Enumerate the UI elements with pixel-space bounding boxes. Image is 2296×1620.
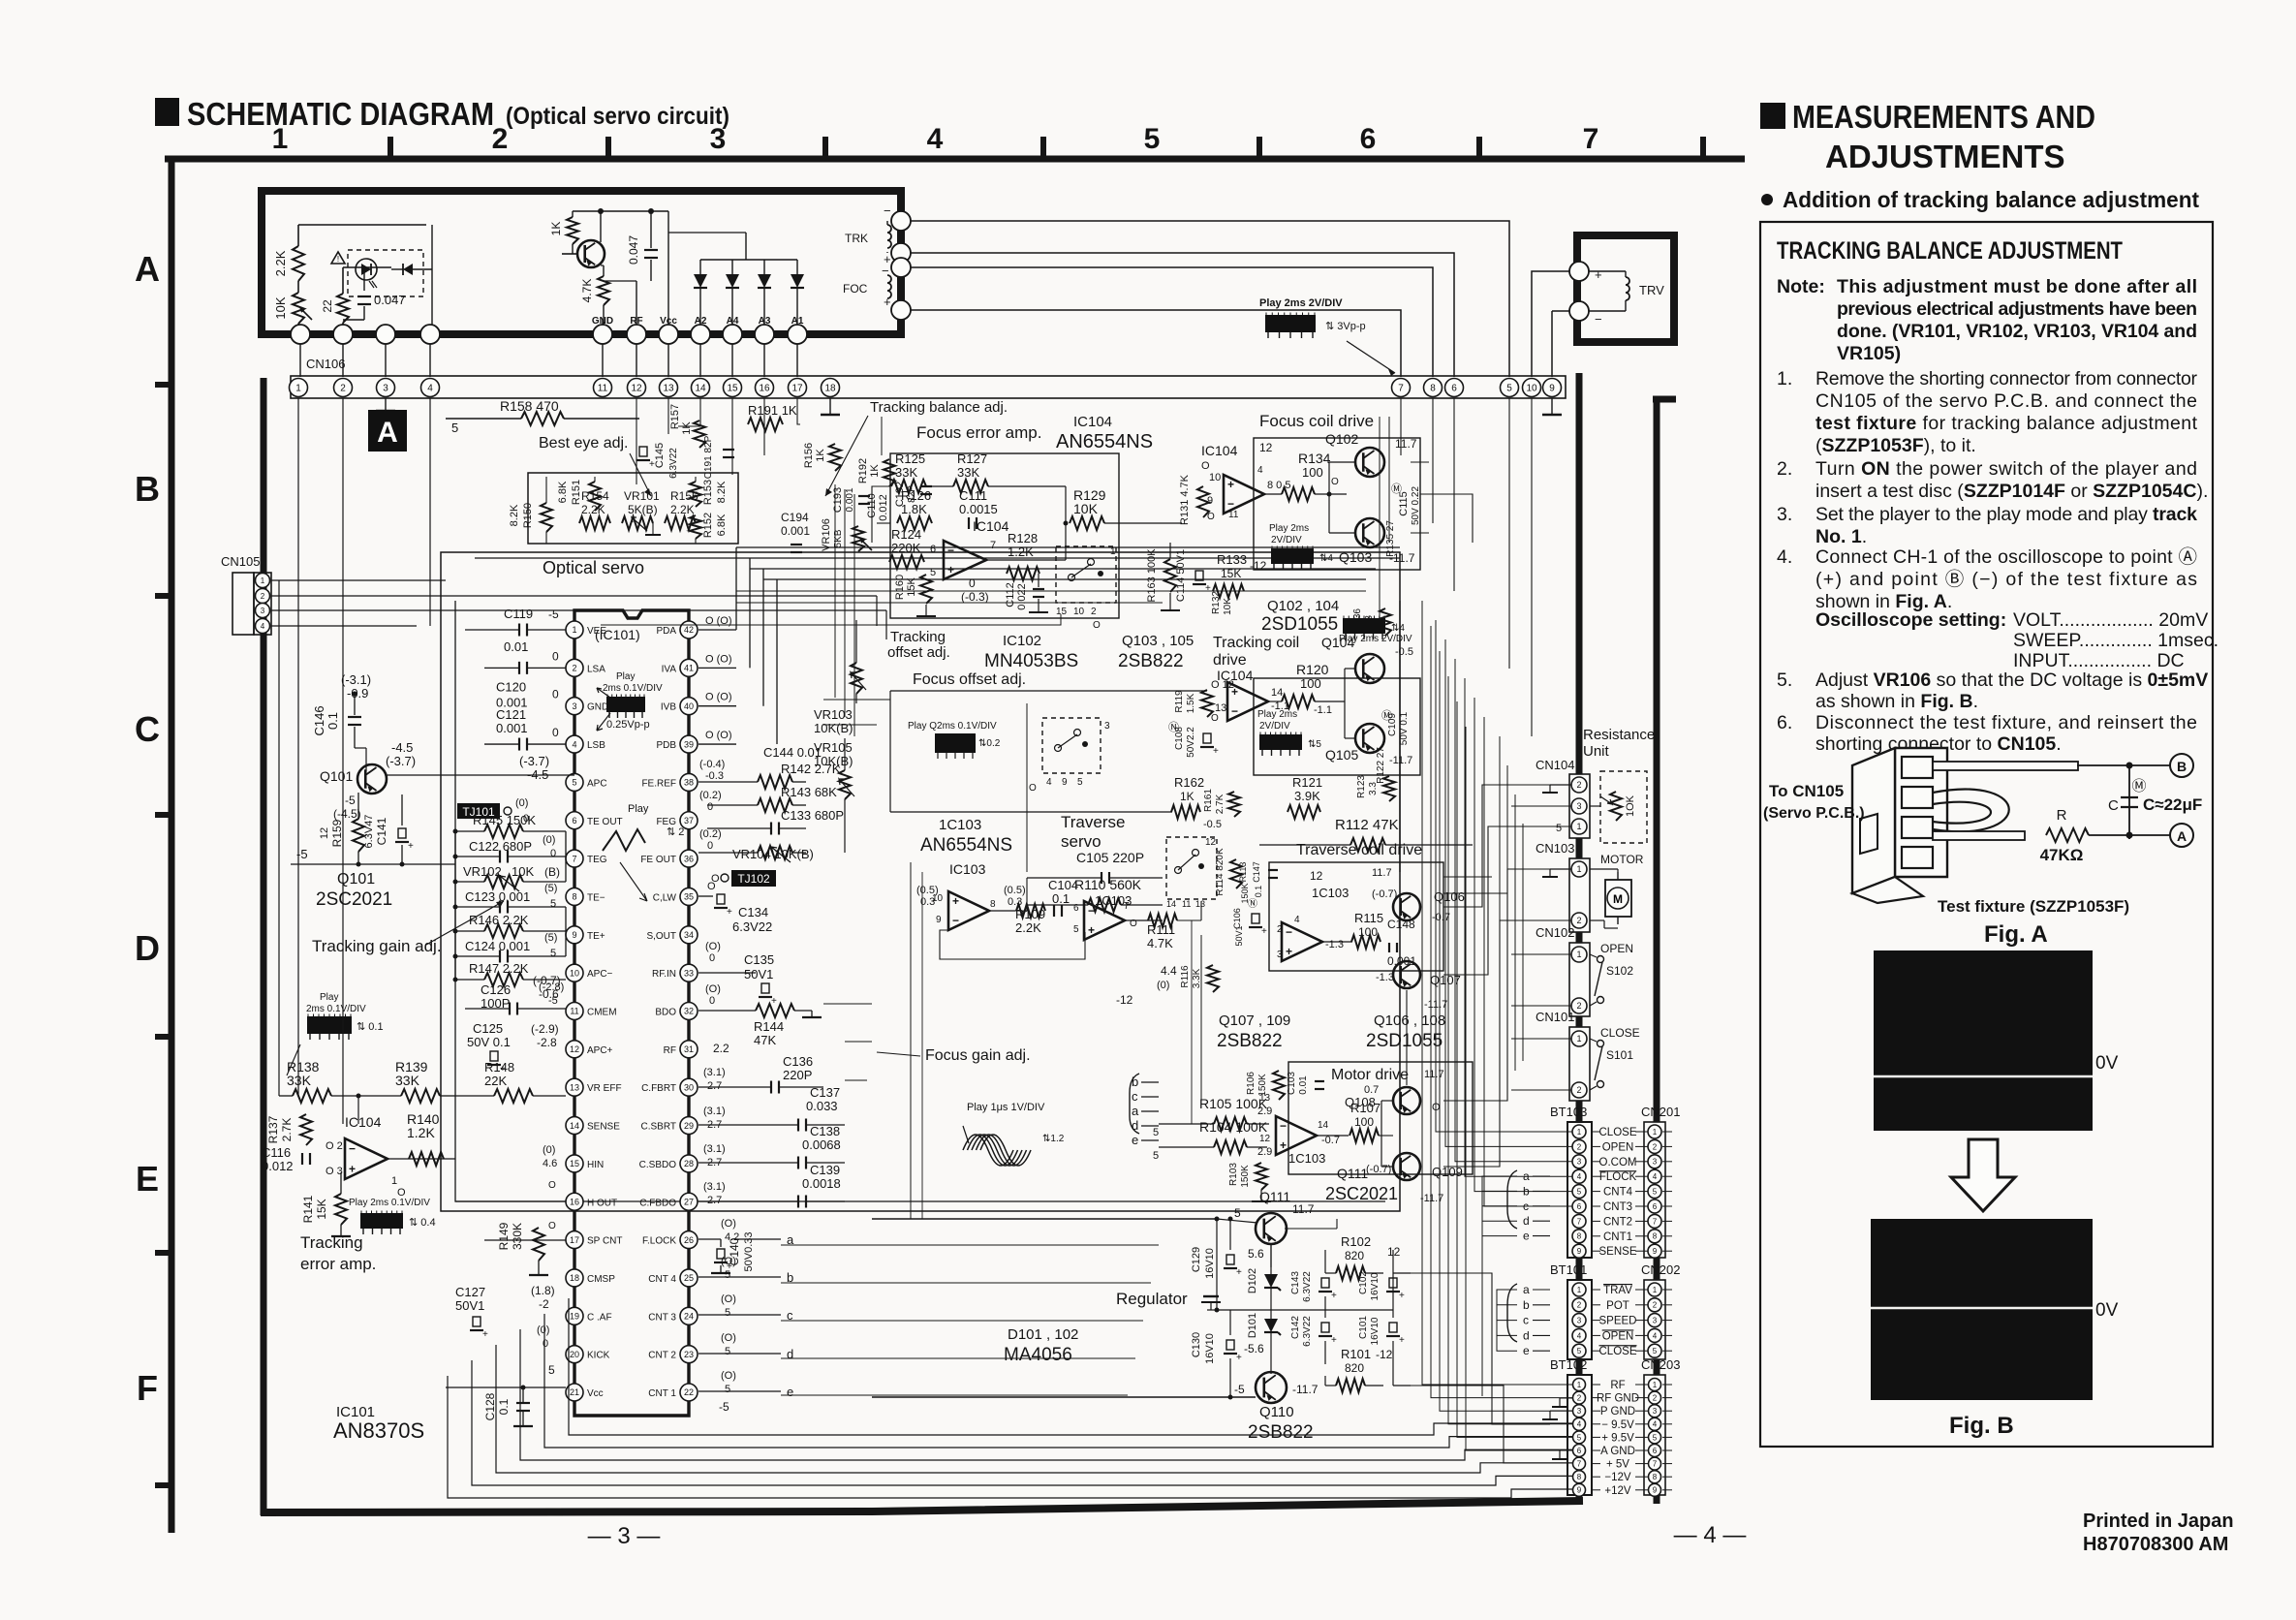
fig A oscillogram photo: [1874, 950, 2093, 1131]
svg-text:13: 13: [1259, 1093, 1271, 1104]
svg-text:R128: R128: [1008, 531, 1038, 545]
svg-text:11: 11: [1228, 510, 1239, 520]
svg-text:R103: R103: [1228, 1163, 1239, 1186]
svg-text:R120: R120: [1296, 662, 1329, 677]
svg-text:4: 4: [1257, 465, 1263, 476]
svg-text:R106: R106: [1246, 1072, 1257, 1095]
svg-text:22: 22: [684, 1387, 694, 1397]
svg-text:1: 1: [1576, 864, 1581, 874]
svg-text:CNT 3: CNT 3: [648, 1312, 676, 1323]
svg-text:(0.2): (0.2): [699, 828, 722, 840]
svg-text:CNT 2: CNT 2: [648, 1351, 676, 1361]
CN106 pin 1: [290, 379, 308, 397]
svg-text:0.047: 0.047: [374, 293, 406, 307]
svg-text:1OK: 1OK: [1625, 794, 1636, 817]
svg-text:R154: R154: [581, 489, 609, 503]
svg-text:C120: C120: [496, 679, 526, 694]
svg-text:10K: 10K: [1223, 598, 1233, 615]
focus error amp box: [890, 453, 1119, 618]
svg-text:⇅ 0.4: ⇅ 0.4: [409, 1217, 436, 1229]
CN106 pin3 ground: [385, 398, 387, 411]
wire extra verticals left mid: [834, 484, 836, 698]
CN105 pin 1: [256, 574, 270, 588]
svg-text:5.6: 5.6: [1248, 1247, 1264, 1261]
svg-text:29: 29: [684, 1121, 694, 1131]
svg-text:C144 0.01: C144 0.01: [763, 745, 822, 760]
svg-text:R146 2.2K: R146 2.2K: [469, 913, 529, 927]
svg-text:Traverse coil drive: Traverse coil drive: [1296, 842, 1422, 858]
IC101 pin 16: [566, 1193, 583, 1210]
svg-text:1K: 1K: [1180, 790, 1195, 803]
IC101 pin 41: [680, 659, 698, 676]
test fixture lead B: [1933, 762, 2078, 770]
svg-text:O: O: [1331, 477, 1339, 487]
svg-text:C116: C116: [262, 1145, 291, 1160]
svg-text:28: 28: [684, 1159, 694, 1168]
svg-text:Test fixture (SZZP1053F): Test fixture (SZZP1053F): [1938, 897, 2129, 916]
CN106 pin 9: [1543, 379, 1562, 397]
svg-text:R: R: [2057, 807, 2067, 824]
svg-text:C135: C135: [744, 952, 774, 967]
svg-text:36: 36: [684, 854, 694, 863]
svg-text:6.3V47: 6.3V47: [363, 815, 375, 849]
svg-text:-0.3: -0.3: [705, 770, 724, 782]
resistor R191 1K: [748, 418, 783, 431]
svg-text:SP CNT: SP CNT: [587, 1236, 623, 1247]
svg-text:50V 0.1: 50V 0.1: [467, 1035, 511, 1049]
svg-text:-12: -12: [1116, 993, 1133, 1007]
svg-text:R192: R192: [857, 458, 869, 483]
svg-text:GND: GND: [587, 702, 608, 713]
IC101 pin 11: [566, 1003, 583, 1020]
svg-text:(Servo P.C.B.): (Servo P.C.B.): [1763, 805, 1865, 822]
svg-text:R121: R121: [1292, 775, 1322, 790]
svg-text:F: F: [137, 1368, 158, 1408]
svg-text:3.: 3.: [1777, 504, 1792, 525]
svg-text:Play 2ms 2V/DIV: Play 2ms 2V/DIV: [1339, 634, 1412, 644]
svg-text:10: 10: [1209, 472, 1221, 483]
svg-text:8.2K: 8.2K: [716, 481, 728, 503]
IC101 pin 36: [680, 850, 698, 867]
wire eye line: [823, 1003, 872, 1005]
svg-text:C111: C111: [959, 488, 987, 503]
svg-text:AN8370S: AN8370S: [333, 1418, 424, 1443]
wire mid horizontal A: [823, 699, 890, 701]
CN106 pin 5: [1501, 379, 1519, 397]
svg-text:4.7K: 4.7K: [1147, 936, 1173, 950]
svg-text:Focus gain adj.: Focus gain adj.: [925, 1047, 1031, 1064]
svg-text:Q106 , 108: Q106 , 108: [1374, 1012, 1445, 1029]
svg-text:7: 7: [1124, 901, 1130, 912]
svg-text:done. (VR101, VR102, VR103, VR: done. (VR101, VR102, VR103, VR104 and: [1837, 321, 2197, 342]
svg-text:C119: C119: [504, 607, 533, 621]
svg-text:5: 5: [1506, 384, 1512, 394]
svg-text:Q101: Q101: [320, 768, 353, 784]
wire mid verticals lower: [1200, 935, 1202, 1105]
svg-text:15K: 15K: [1221, 567, 1241, 580]
svg-text:-11.7: -11.7: [1420, 1193, 1443, 1204]
svg-text:+: +: [1236, 1353, 1242, 1363]
svg-text:3: 3: [1577, 1316, 1582, 1324]
svg-text:+: +: [649, 459, 655, 470]
svg-text:5: 5: [1653, 1433, 1658, 1442]
svg-text:Vcc: Vcc: [587, 1388, 604, 1399]
wire horizontal drop join: [639, 418, 678, 420]
svg-text:+: +: [727, 907, 732, 918]
wire verticals CN106 drop 14: [678, 398, 700, 426]
svg-text:C134: C134: [738, 905, 768, 919]
svg-text:Traverse: Traverse: [1061, 813, 1125, 831]
svg-text:5: 5: [1153, 1127, 1159, 1138]
svg-text:1K: 1K: [549, 222, 563, 236]
svg-text:21: 21: [570, 1387, 579, 1397]
IC101 pin 25: [680, 1269, 698, 1287]
svg-text:−: −: [1088, 904, 1095, 918]
svg-text:C125: C125: [473, 1021, 503, 1036]
svg-text:4: 4: [1046, 777, 1052, 788]
svg-text:Printed in Japan: Printed in Japan: [2083, 1511, 2234, 1532]
svg-text:3: 3: [1653, 1316, 1658, 1324]
diode bus wire: [700, 259, 797, 261]
wire long horizontals upper mid: [736, 590, 1366, 592]
svg-text:Tracking balance adj.: Tracking balance adj.: [870, 399, 1008, 416]
svg-text:5: 5: [550, 898, 556, 910]
wire loop 2: [472, 1360, 1572, 1485]
svg-text:12: 12: [631, 384, 642, 394]
svg-text:0: 0: [552, 649, 559, 663]
svg-text:11.7: 11.7: [1372, 867, 1392, 879]
svg-text:insert a test disc (SZZP1014F: insert a test disc (SZZP1014F or SZZP105…: [1815, 481, 2208, 502]
svg-text:A: A: [135, 249, 160, 289]
svg-text:O.COM: O.COM: [1599, 1157, 1637, 1168]
svg-text:+: +: [1261, 926, 1267, 937]
svg-text:33: 33: [684, 968, 694, 978]
svg-text:1C103: 1C103: [1312, 886, 1349, 900]
IC101 pin 2: [566, 659, 583, 676]
IC101 pin 34: [680, 926, 698, 944]
svg-text:2: 2: [1277, 924, 1283, 935]
svg-text:(O): (O): [721, 1218, 736, 1230]
svg-text:MEASUREMENTS AND: MEASUREMENTS AND: [1792, 99, 2095, 135]
svg-text:Turn ON the power switch of th: Turn ON the power switch of the player a…: [1815, 458, 2197, 480]
diode A1: [791, 274, 804, 288]
svg-text:−: −: [1231, 704, 1238, 718]
svg-text:C123 0.001: C123 0.001: [465, 889, 530, 904]
svg-text:(-0.3): (-0.3): [961, 590, 989, 604]
CN106 pin 11: [594, 379, 612, 397]
svg-text:20: 20: [570, 1350, 579, 1359]
wire traverse feedback: [940, 930, 1085, 959]
svg-text:R102: R102: [1341, 1234, 1371, 1249]
svg-text:12: 12: [1259, 1134, 1271, 1144]
svg-text:C.SBDO: C.SBDO: [639, 1160, 677, 1170]
svg-text:offset adj.: offset adj.: [887, 644, 950, 661]
svg-text:R131 4.7K: R131 4.7K: [1179, 474, 1191, 525]
IC101 pin 28: [680, 1155, 698, 1172]
IC101 pin 1: [566, 621, 583, 639]
svg-text:3: 3: [1104, 721, 1110, 732]
svg-text:c: c: [1523, 1314, 1529, 1327]
svg-text:6: 6: [1653, 1202, 1658, 1211]
svg-text:c: c: [1132, 1089, 1138, 1104]
CN106 pin 7: [1392, 379, 1411, 397]
svg-text:10K: 10K: [512, 864, 534, 879]
svg-text:5: 5: [1073, 924, 1079, 935]
svg-text:5: 5: [572, 778, 576, 788]
wire verticals CN106 drop 15: [731, 398, 733, 475]
svg-text:1: 1: [1576, 822, 1581, 831]
svg-text:47K: 47K: [754, 1033, 776, 1047]
svg-text:R104 100K: R104 100K: [1199, 1119, 1268, 1135]
svg-text:19: 19: [570, 1312, 579, 1322]
svg-text:H870708300 AM: H870708300 AM: [2083, 1534, 2228, 1555]
resistor R 47K: [1933, 831, 2025, 840]
svg-text:Ⓝ: Ⓝ: [1168, 721, 1179, 733]
svg-text:16: 16: [570, 1197, 579, 1206]
svg-text:C138: C138: [810, 1124, 840, 1138]
svg-text:1.2K: 1.2K: [407, 1125, 435, 1140]
svg-text:(0): (0): [515, 797, 528, 809]
svg-text:(O): (O): [721, 1370, 736, 1382]
svg-text:(-0.7): (-0.7): [533, 974, 561, 987]
svg-text:R115: R115: [1354, 911, 1383, 925]
best eye network box: [528, 473, 738, 544]
wire rail top2: [475, 557, 1400, 559]
svg-text:VR EFF: VR EFF: [587, 1083, 622, 1094]
svg-text:MN4053BS: MN4053BS: [984, 651, 1078, 671]
IC101 pin 19: [566, 1307, 583, 1324]
svg-text:2SC2021: 2SC2021: [316, 889, 392, 910]
svg-text:5: 5: [1577, 1347, 1582, 1355]
wire verticals CN106 drop 16: [763, 398, 765, 455]
svg-text:2: 2: [340, 384, 346, 394]
svg-text:+12V: +12V: [1604, 1485, 1631, 1497]
svg-text:8: 8: [990, 899, 996, 910]
svg-text:-0.6: -0.6: [539, 987, 559, 1001]
svg-text:IC104: IC104: [1201, 443, 1238, 458]
svg-text:CN102: CN102: [1536, 925, 1574, 940]
traverse coil drive box: [1269, 862, 1443, 971]
CN106 pin 18: [822, 379, 840, 397]
svg-text:D101: D101: [1247, 1313, 1258, 1338]
svg-text:RF GND: RF GND: [1597, 1393, 1639, 1405]
svg-text:10: 10: [570, 968, 579, 978]
svg-text:1.8K: 1.8K: [901, 502, 927, 516]
svg-text:2: 2: [1576, 1085, 1581, 1095]
svg-text:2: 2: [1653, 1142, 1658, 1151]
svg-text:R159: R159: [330, 819, 344, 847]
down arrow: [1951, 1139, 2015, 1211]
nested wire loop 2: [455, 601, 1385, 1201]
svg-text:Unit: Unit: [1583, 743, 1610, 760]
svg-text:+: +: [1236, 1267, 1242, 1278]
svg-text:(3.1): (3.1): [703, 1067, 726, 1078]
opamp tracking coil drive: [1227, 682, 1268, 721]
CN106 pin 14: [692, 379, 710, 397]
svg-text:33K: 33K: [395, 1073, 420, 1088]
IC101 pin 29: [680, 1117, 698, 1135]
wire verticals CN106 drop 17: [797, 398, 800, 424]
wire RF: [636, 281, 637, 334]
terminal a: [734, 1238, 781, 1240]
svg-text:6: 6: [1577, 1202, 1582, 1211]
svg-text:Fig. A: Fig. A: [1984, 921, 2048, 948]
wire traverse servo left verticals: [910, 862, 912, 1219]
warning triangle: [331, 252, 345, 264]
svg-text:O: O: [1029, 783, 1037, 794]
resistor R159 12: [353, 819, 364, 852]
svg-text:RF: RF: [1610, 1380, 1625, 1391]
svg-text:-5: -5: [345, 794, 356, 807]
svg-text:1C103: 1C103: [1288, 1151, 1325, 1166]
svg-text:C147: C147: [1252, 861, 1261, 883]
TRV coil: [1626, 277, 1629, 300]
svg-text:10: 10: [932, 893, 944, 904]
svg-text:VR104 10K(B): VR104 10K(B): [732, 847, 814, 861]
svg-text:10: 10: [1526, 384, 1537, 394]
svg-text:0.01: 0.01: [1298, 1075, 1309, 1095]
svg-text:2.7: 2.7: [707, 1119, 722, 1131]
optical pickup unit box: [262, 191, 901, 334]
svg-text:Resistance: Resistance: [1583, 727, 1655, 743]
FOC terminals: [891, 258, 911, 277]
svg-text:R148: R148: [484, 1060, 514, 1075]
svg-text:8: 8: [1653, 1473, 1658, 1481]
svg-text:C104: C104: [1048, 878, 1078, 892]
svg-text:3: 3: [1653, 1407, 1658, 1416]
svg-text:(-3.7): (-3.7): [519, 754, 549, 768]
svg-text:-5: -5: [548, 607, 559, 621]
wire regulator c129: [1229, 1219, 1231, 1250]
wire collector: [600, 211, 602, 242]
svg-text:7: 7: [990, 540, 996, 551]
svg-text:17: 17: [570, 1235, 579, 1245]
svg-text:TE OUT: TE OUT: [587, 817, 623, 827]
svg-text:−: −: [882, 264, 889, 278]
wire R111 out: [1177, 919, 1201, 921]
svg-text:-1.3: -1.3: [1325, 939, 1344, 950]
wire bus right of pickup: [1400, 398, 1402, 455]
svg-text:O 2: O 2: [326, 1140, 343, 1152]
IC101 pin 18: [566, 1269, 583, 1287]
svg-text:-0.9: -0.9: [347, 686, 368, 701]
svg-text:220P: 220P: [783, 1068, 812, 1082]
svg-text:1: 1: [1110, 546, 1116, 557]
svg-text:-0.5: -0.5: [1395, 646, 1413, 658]
svg-text:C: C: [2108, 797, 2119, 814]
svg-text:Play: Play: [628, 803, 649, 815]
svg-text:V​EE: V​EE: [587, 626, 606, 637]
svg-text:12: 12: [1387, 1245, 1401, 1259]
svg-text:D: D: [135, 928, 160, 968]
svg-text:FE.REF: FE.REF: [641, 778, 676, 789]
vertical drop tracking adj: [881, 417, 883, 455]
svg-text:4: 4: [927, 123, 944, 155]
svg-text:1: 1: [272, 123, 289, 155]
svg-text:2V/DIV: 2V/DIV: [1259, 721, 1290, 732]
svg-text:e: e: [787, 1385, 793, 1399]
svg-text:1: 1: [1577, 1286, 1582, 1294]
svg-text:0.001: 0.001: [845, 487, 855, 512]
resistor R147 2.2K: [484, 973, 523, 986]
svg-text:11.7: 11.7: [1292, 1202, 1315, 1216]
svg-text:2.7: 2.7: [707, 1080, 722, 1092]
svg-text:+: +: [1399, 1335, 1405, 1346]
svg-text:R126: R126: [901, 488, 931, 503]
svg-text:0: 0: [550, 848, 556, 859]
wire loop 4: [520, 1329, 1572, 1460]
svg-text:C193: C193: [832, 487, 844, 513]
svg-text:4: 4: [261, 622, 265, 631]
svg-text:3: 3: [383, 384, 388, 394]
pickup pin circles: [291, 325, 310, 344]
svg-text:7: 7: [1577, 1459, 1582, 1468]
svg-text:4: 4: [1577, 1420, 1582, 1429]
svg-text:0.0068: 0.0068: [802, 1137, 841, 1152]
svg-text:6.: 6.: [1777, 712, 1792, 733]
svg-text:-5: -5: [1234, 1383, 1245, 1396]
svg-text:-11.7: -11.7: [1389, 755, 1412, 766]
svg-text:0.1: 0.1: [1254, 886, 1263, 898]
capacitor C140 50V 0.33: [717, 1249, 725, 1259]
svg-text:IVB: IVB: [661, 702, 676, 713]
svg-text:CN202: CN202: [1641, 1262, 1680, 1277]
svg-text:a: a: [1523, 1283, 1530, 1296]
svg-text:-12: -12: [1376, 1348, 1393, 1361]
svg-text:5: 5: [1653, 1347, 1658, 1355]
svg-text:22K: 22K: [484, 1074, 507, 1088]
wire long mid-left verticals: [832, 419, 834, 678]
svg-text:0: 0: [707, 840, 713, 852]
svg-text:C194: C194: [781, 511, 809, 524]
svg-text:Focus coil drive: Focus coil drive: [1259, 412, 1374, 430]
svg-text:14: 14: [1166, 899, 1176, 909]
svg-text:33K: 33K: [287, 1073, 312, 1088]
svg-text:CNT3: CNT3: [1603, 1201, 1632, 1213]
switch IC102 block3: [1166, 837, 1217, 899]
svg-text:TJ102: TJ102: [737, 872, 770, 886]
wire verticals CN106 drop 13: [667, 398, 669, 434]
svg-text:11: 11: [1182, 899, 1191, 909]
TRK terminals: [891, 211, 911, 231]
wire q111 emitter: [1270, 1244, 1272, 1267]
svg-text:1K: 1K: [681, 421, 693, 435]
svg-text:TRAV: TRAV: [1603, 1285, 1632, 1296]
svg-text:6: 6: [1653, 1447, 1658, 1455]
svg-text:31: 31: [684, 1044, 694, 1054]
svg-text:1: 1: [572, 625, 576, 635]
svg-text:CNT 1: CNT 1: [648, 1388, 676, 1399]
wire top rail: [298, 224, 426, 226]
svg-text:d: d: [1523, 1214, 1530, 1228]
svg-text:4.2: 4.2: [725, 1231, 739, 1243]
svg-text:12: 12: [1259, 441, 1273, 454]
terminal d: [698, 1353, 781, 1355]
svg-text:(O): (O): [721, 1332, 736, 1344]
svg-text:B: B: [135, 469, 160, 509]
svg-text:220K: 220K: [891, 541, 921, 555]
svg-text:4.4: 4.4: [1161, 964, 1177, 978]
wire C138 line: [845, 1079, 867, 1081]
wire rail top3: [736, 546, 1400, 548]
svg-text:30: 30: [684, 1082, 694, 1092]
svg-text:5K(B): 5K(B): [628, 503, 658, 516]
svg-text:D101 , 102: D101 , 102: [1008, 1326, 1078, 1343]
svg-text:C130: C130: [1191, 1332, 1202, 1357]
svg-text:C127: C127: [455, 1285, 485, 1299]
svg-text:5: 5: [1556, 823, 1562, 834]
svg-text:4: 4: [1577, 1331, 1582, 1340]
